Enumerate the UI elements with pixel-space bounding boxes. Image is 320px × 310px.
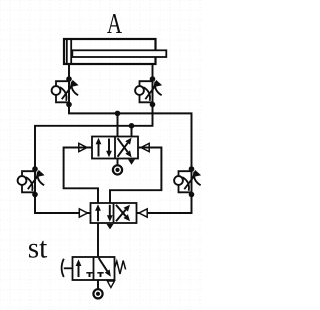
valve st body (73, 257, 115, 280)
wire cylinder left port (68, 64, 70, 79)
valve st return spring (115, 261, 126, 274)
flow control valve FC1 (left, at cylinder) (52, 76, 79, 107)
svg-text:st: st (28, 232, 48, 265)
wire FC1 to manifold H1 (69, 105, 192, 170)
exhaust V1 (128, 159, 135, 164)
wire st supply stub (97, 280, 99, 289)
valve V1 body (92, 137, 138, 159)
valve st right box exhaust path (99, 258, 111, 277)
valve st left box blocked port (86, 273, 92, 277)
flow control valve FC3 (outer left) (18, 166, 45, 197)
valve V1 right box crossed arrows (118, 138, 132, 158)
valve V2 left box arrows (95, 204, 113, 222)
pilot triangle V2 left (79, 209, 87, 217)
wire V1 port A stub (117, 113, 119, 136)
cylinder A body (64, 39, 156, 64)
valve V1 left box arrows (96, 138, 112, 158)
pilot triangle V2 right (139, 209, 147, 217)
wire V1 left pilot to V2 output A (64, 148, 98, 204)
valve V2 right box crossed arrows (116, 205, 130, 222)
wire V1 supply stub (117, 159, 119, 166)
compressed air source for V1 (113, 165, 122, 174)
cylinder A piston (66, 40, 68, 63)
exhaust V2 (107, 224, 114, 229)
wire V1 right pilot to V2 output B (110, 148, 161, 204)
svg-text:A: A (107, 9, 123, 40)
flow control valve FC2 (right, at cylinder) (135, 76, 162, 107)
valve V2 body (91, 203, 137, 223)
wire FC2 to manifold H2 (35, 105, 153, 170)
valve st exhaust port triangle (107, 281, 114, 288)
compressed air source main (93, 289, 102, 298)
junction H2 / valve V1 port B branch (129, 123, 135, 129)
flow control valve FC4 (outer right) (174, 166, 201, 197)
wire FC4 to V2 right pilot (137, 195, 192, 214)
valve st left box flow arrow (76, 259, 82, 277)
pilot triangle V1 left (79, 143, 87, 151)
wire FC3 to V2 left pilot (35, 195, 91, 214)
wire cylinder right port (152, 64, 154, 79)
pilot triangle V1 right (141, 143, 149, 151)
valve st right box blocked port (97, 273, 103, 277)
junction H1 / valve V1 port A branch (115, 111, 121, 117)
cylinder A piston rod (72, 50, 166, 57)
wire V2 supply from valve st (97, 223, 99, 257)
valve st manual actuator button (62, 259, 73, 277)
wire V1 port B stub (131, 126, 133, 137)
